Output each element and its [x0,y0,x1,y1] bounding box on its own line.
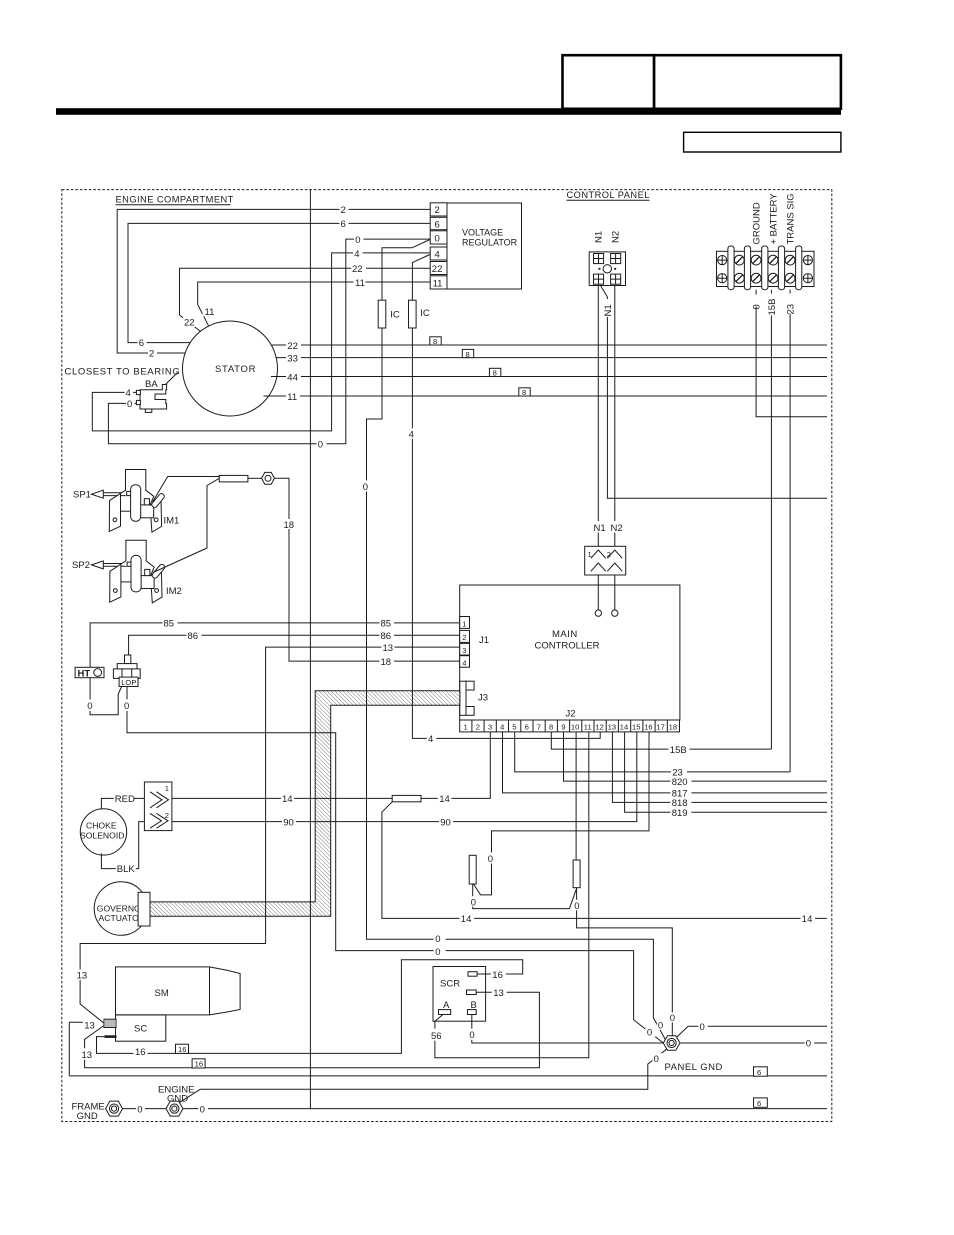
crossed square BR [611,274,621,284]
crossed square TR [611,254,621,264]
svg-text:44: 44 [287,372,298,383]
J1 pin box 4 [460,656,470,668]
svg-text:0: 0 [435,234,440,245]
wire N1 down to breaker [597,286,599,547]
svg-text:13: 13 [493,988,504,999]
wire IM1 to suppressor [153,477,220,503]
wire 23 from TRANS SIG terminal down to J2-5 [789,290,791,772]
wire panel ground to right edge (horizontal) [680,1042,827,1044]
wire 4 from IC2 to J2-12 [412,328,600,738]
svg-text:85: 85 [381,619,392,630]
svg-text:SCR: SCR [440,979,460,990]
wire 818 : J2-13 to right edge [612,732,827,803]
stator output wire 33 [276,357,828,359]
svg-text:STATOR: STATOR [215,364,256,375]
VR pin box 11 [430,276,447,289]
svg-text:16: 16 [644,723,652,732]
svg-text:0: 0 [670,1013,675,1024]
svg-text:CHOKE: CHOKE [86,821,117,831]
svg-text:MAIN: MAIN [552,629,578,640]
terminal block bar 4 [778,246,784,290]
svg-text:6: 6 [525,723,529,732]
ignition hex stud [262,472,275,484]
svg-text:14: 14 [282,794,293,805]
wire 14 branch to right edge [382,802,827,919]
svg-text:13: 13 [383,643,394,654]
braided strap connector at SC [104,1019,116,1027]
breaker pole 2 chevrons [607,550,622,571]
wire N1 branch to right edge [601,286,828,499]
boxed label 16 on SC-SCR16 wire [176,1044,189,1053]
svg-text:0: 0 [200,1105,205,1116]
header small box (empty) [684,132,841,152]
svg-text:ENGINE COMPARTMENT: ENGINE COMPARTMENT [116,195,234,205]
svg-text:18: 18 [669,723,677,732]
VR pin box 0 [430,231,447,244]
wire panel ground to engine ground [180,1049,667,1102]
starter motor nose cone [210,967,241,1015]
svg-text:90: 90 [283,817,294,828]
screw terminal c2 bottom (GROUND) [751,273,761,283]
svg-text:6: 6 [757,1068,761,1077]
svg-text:0: 0 [363,482,368,493]
svg-text:N2: N2 [611,523,623,534]
svg-text:22: 22 [184,317,195,328]
wire 4 : VR pin4 to BA pin4 [92,253,430,431]
wire 22 : VR pin22 to stator top [180,268,431,331]
svg-text:11: 11 [433,279,443,290]
VR pin box 4 [430,247,447,260]
VR pin box 6 [430,217,447,229]
svg-text:+ BATTERY: + BATTERY [769,193,780,245]
screw terminal c4 bottom (TRANS SIG) [785,273,795,283]
svg-text:11: 11 [287,392,297,403]
wire 13 : J1-3 down-left toward starter contactor [80,647,460,1023]
governor actuator terminal box [138,892,150,926]
wire frame gnd to engine gnd [123,1108,167,1110]
wire R1 bottom to R2 bottom [473,884,577,909]
label N2 above breaker [610,521,624,533]
svg-text:18: 18 [284,520,295,531]
J1 pin box 2 [460,630,470,642]
wire 0 from GROUND terminal to right edge [756,290,827,417]
boxed label 6 on lower ground wire [754,1098,768,1107]
wire 15B : J2-8 to battery terminal riser [551,732,771,749]
svg-text:0: 0 [124,701,129,712]
screw terminal c2 top [751,255,761,265]
wire N2 down to breaker [614,286,616,547]
divider line over harness band [309,902,311,916]
outer dashed enclosure border [62,190,832,1122]
connector P-N1N2 body [589,252,625,286]
pointer line to BA [164,373,178,387]
boxed label 6 on frame circuit wire [754,1067,768,1076]
wire IC2 branch to VR pin4 [412,255,430,301]
svg-text:0: 0 [318,440,323,451]
starter motor SM body [116,967,210,1015]
svg-text:7: 7 [537,723,541,732]
screw terminal c1 bottom [734,273,744,283]
J1 pin box 3 [460,643,470,655]
SCR pin 16 [468,972,477,977]
boxed label 16 on 13-SCR wire [192,1059,205,1068]
svg-text:12: 12 [595,723,603,732]
svg-text:33: 33 [287,353,298,364]
boxed terminal label 8 on wire 22 [430,337,441,345]
wire 0 : SCR B to panel ground [472,1015,664,1044]
svg-text:4: 4 [354,249,359,260]
stator ST1 circle [183,321,278,416]
svg-text:0: 0 [647,1027,652,1038]
svg-text:0: 0 [469,1030,474,1041]
svg-text:14: 14 [802,914,813,925]
controller input terminal circle 2 [612,610,618,616]
svg-text:SM: SM [155,988,169,999]
header box right (empty) [654,55,841,109]
svg-text:CONTROL PANEL: CONTROL PANEL [567,190,650,200]
svg-text:3: 3 [462,646,466,655]
low oil pressure switch LOP [113,655,140,687]
header thick rule [56,108,841,115]
svg-text:0: 0 [700,1022,705,1033]
wire 11 : VR pin11 to stator top [198,282,431,326]
svg-text:SC: SC [134,1024,147,1035]
svg-text:16: 16 [492,970,503,981]
SCR pin A [439,1010,451,1015]
svg-text:4: 4 [126,388,131,399]
crossed square BL [594,274,604,284]
svg-text:SOLENOID: SOLENOID [80,831,124,841]
frame ground stud hexagon [106,1101,123,1116]
svg-text:0: 0 [574,901,579,912]
terminal block bar 1 [728,246,734,290]
svg-text:N1: N1 [603,304,614,316]
J1 pin box 1 [460,617,470,629]
svg-text:14: 14 [461,914,472,925]
svg-text:4: 4 [462,658,466,667]
screw terminal c4 top [785,255,795,265]
svg-text:J2: J2 [566,709,576,720]
wire 13 branch to SCR line [85,1026,104,1068]
svg-text:0: 0 [127,399,132,410]
svg-text:2: 2 [476,723,480,732]
mounting screw bottom-left (cross) [718,274,727,283]
ignition suppressor resistor [219,475,248,482]
svg-text:86: 86 [188,631,199,642]
wire 15B from +BATTERY terminal down to J2-8 [770,290,772,749]
svg-text:TRANS SIG: TRANS SIG [786,193,797,244]
mounting screw top-left (cross) [718,256,727,265]
svg-text:1: 1 [464,723,468,732]
terminal block bar 5 [796,246,802,290]
frame circuit wire with boxed 6 [69,1075,827,1077]
svg-text:8: 8 [522,388,526,397]
svg-text:15B: 15B [670,745,687,756]
svg-text:0: 0 [654,1054,659,1065]
svg-text:N1: N1 [594,231,605,243]
svg-text:22: 22 [432,264,443,275]
svg-text:0: 0 [435,934,440,945]
svg-text:11: 11 [584,723,592,732]
boxed terminal label 8 on wire 33 [462,349,473,357]
governor actuator M2 [94,882,148,936]
boxed terminal label 8 on wire 11 [519,388,530,396]
svg-text:CONTROLLER: CONTROLLER [535,641,600,652]
svg-text:22: 22 [352,264,363,275]
wire 90 : choke BLK junction to J2-15 [172,732,637,822]
svg-text:11: 11 [355,278,365,289]
wire 820 : J2-9 to right edge [564,732,828,781]
wire 86 : LOP to J1-2 [129,635,460,663]
svg-text:86: 86 [381,631,392,642]
svg-text:0: 0 [471,897,476,908]
starter contactor SC body [116,1015,166,1041]
breaker pole 1 chevrons [591,550,606,571]
spark plug arrow SP2 [72,560,127,571]
wire 0 from IC1 to panel ground [367,328,666,1040]
svg-text:IC: IC [390,310,400,321]
svg-text:11: 11 [205,307,215,318]
svg-text:6: 6 [435,219,440,230]
svg-text:14: 14 [439,794,450,805]
svg-text:15B: 15B [767,299,778,316]
svg-text:1: 1 [165,784,169,793]
svg-text:10: 10 [571,723,579,732]
SCR pin 13 [467,990,477,995]
main controller U1 body [460,585,680,720]
svg-text:SP1: SP1 [73,490,91,501]
svg-text:4: 4 [500,723,504,732]
svg-text:6: 6 [757,1099,761,1108]
svg-text:13: 13 [84,1020,95,1031]
wire 56 : SCR A to J2-11 [435,732,589,1058]
wire IM2 to suppressor [153,478,219,572]
svg-text:22: 22 [287,341,298,352]
wire 23 : J2-5 to trans sig riser [515,732,790,772]
title CONTROL PANEL [567,190,650,200]
svg-text:N1: N1 [594,523,606,534]
wire LOP 0 to panel ground [127,687,663,1044]
svg-text:16: 16 [178,1045,186,1054]
svg-text:9: 9 [561,723,565,732]
svg-text:2: 2 [607,550,611,559]
center circle [603,265,611,273]
svg-text:2: 2 [165,811,169,820]
resistor R1 [469,855,476,884]
svg-text:1: 1 [588,550,592,559]
thick stub under SC [105,1035,117,1038]
svg-text:0: 0 [658,1021,663,1032]
wire J2-16 to R1 [474,732,650,895]
svg-text:2: 2 [149,349,154,360]
stator output wire 44 [271,376,827,378]
controller input terminal circle 1 [595,610,601,616]
svg-text:REGULATOR: REGULATOR [462,238,518,248]
svg-text:6: 6 [341,219,346,230]
svg-text:820: 820 [672,777,688,788]
svg-text:0: 0 [435,947,440,958]
svg-text:819: 819 [672,808,688,819]
svg-text:8: 8 [493,369,497,378]
svg-text:IM1: IM1 [164,516,180,527]
wire 18 : ignition hex stud to J1-4 [274,478,460,661]
svg-text:J3: J3 [478,693,488,704]
SCR pin B [467,1010,476,1015]
svg-text:0: 0 [752,304,763,309]
wire 14 : choke connector to J2-3 via resistor [172,732,490,799]
svg-text:0: 0 [137,1105,142,1116]
svg-text:BLK: BLK [117,864,136,875]
svg-text:6: 6 [139,338,144,349]
svg-text:5: 5 [512,723,516,732]
svg-text:16: 16 [135,1047,146,1058]
svg-text:4: 4 [428,734,433,745]
hatched harness band (J3 to governor actuator) [150,691,460,917]
wire BLK choke joins 90 [101,822,144,869]
VR pin box 2 [430,203,447,216]
terminal block bar 3 [762,246,768,290]
svg-text:CLOSEST TO BEARING: CLOSEST TO BEARING [65,367,181,378]
svg-text:IC: IC [420,308,430,319]
svg-text:0: 0 [806,1039,811,1050]
svg-text:BA: BA [145,379,158,390]
svg-text:2: 2 [435,205,440,216]
svg-text:4: 4 [409,430,414,441]
svg-text:J1: J1 [479,635,489,646]
svg-text:A: A [443,1000,450,1011]
screw terminal c1 top [734,255,744,265]
screw terminal c3 top [768,255,778,265]
svg-text:18: 18 [381,657,392,668]
wire 85 : HTO to J1-1 [90,623,460,667]
wire 817 : J2-4 to right edge [503,732,828,793]
svg-text:GROUND: GROUND [752,202,763,244]
wire panel ground upper-right branch [677,1026,828,1037]
svg-text:3: 3 [488,723,492,732]
wire 2 : VR pin2 to stator [117,209,430,353]
svg-text:90: 90 [440,817,451,828]
voltage regulator U-VR body [447,203,522,289]
wire 16 : SC to SCR pin 16 [97,960,523,1054]
svg-text:23: 23 [786,304,797,315]
stator output wire 22 [272,344,827,346]
stator output wire 11 [264,395,828,397]
svg-text:16: 16 [195,1060,203,1069]
spark plug arrow SP1 [73,490,127,501]
svg-text:2: 2 [341,205,346,216]
boxed terminal label 8 on wire 44 [489,368,500,376]
high temp oil switch HTO [75,667,104,679]
svg-text:HT: HT [78,668,91,679]
wire RED choke to connector [101,798,144,809]
svg-text:14: 14 [620,723,628,732]
header box left (empty) [563,55,655,109]
svg-text:13: 13 [82,1050,93,1061]
svg-text:GND: GND [167,1094,188,1105]
terminal block body [717,251,815,286]
svg-text:13: 13 [608,723,616,732]
title ENGINE COMPARTMENT [116,195,234,205]
wire suppressor to hex stud [248,477,262,479]
svg-text:17: 17 [656,723,664,732]
svg-text:N2: N2 [611,231,622,243]
svg-text:RED: RED [115,794,135,805]
screw terminal c3 bottom (+BATTERY) [768,273,778,283]
svg-text:IM2: IM2 [166,586,182,597]
wire 6 : VR pin6 to stator [128,223,430,342]
wire HTO 0 to LOP bottom [90,678,121,715]
side dots [598,268,600,270]
svg-text:GND: GND [77,1111,98,1122]
wire 819 : J2-14 to right edge [625,732,827,812]
choke solenoid M1 [80,809,126,855]
SCR body [433,967,486,1022]
wire R2 bottom to panel ground [577,888,673,1037]
svg-text:15: 15 [632,723,640,732]
wire engine gnd to right edge [183,1108,827,1110]
svg-text:SP2: SP2 [72,560,90,571]
choke connector P2 [144,782,172,831]
crossed square TL [594,254,604,264]
wire 0 : VR pin0 to BA pin0 [108,239,430,444]
engine ground stud hexagon [166,1101,183,1116]
svg-text:8: 8 [549,723,553,732]
resistor R2 [573,860,580,888]
compartment divider line [309,190,311,1110]
svg-text:13: 13 [77,971,88,982]
wire IC1 branch to VR pin0 [382,240,430,301]
capacitor IC2 [409,300,417,328]
mounting screw bottom-right (cross) [803,274,812,283]
label N1 above breaker [593,521,606,533]
ignition module IM1 [109,470,165,533]
mounting screw top-right (cross) [803,256,812,265]
wire stub to frame line [69,1022,83,1076]
svg-text:0: 0 [355,235,360,246]
ignition module IM2 [110,540,166,603]
svg-text:8: 8 [433,337,437,346]
svg-text:VOLTAGE: VOLTAGE [462,228,503,238]
J3 connector plug [460,681,474,715]
svg-text:B: B [471,1000,477,1011]
terminal block bar 2 [744,246,750,290]
svg-text:1: 1 [462,619,466,628]
panel ground stud hexagon [663,1036,680,1050]
capacitor IC1 [378,300,386,328]
choke resistor R3 [392,795,421,801]
breaker output wires into controller [597,575,599,610]
wire 13-SCR : SC branch to SCR pin 13 [85,992,540,1067]
svg-text:0: 0 [87,701,92,712]
bearing assembly BA connector [136,385,166,413]
svg-text:85: 85 [164,619,175,630]
svg-text:0: 0 [488,854,493,865]
svg-text:8: 8 [466,350,470,359]
svg-text:4: 4 [435,250,440,261]
svg-text:56: 56 [431,1031,442,1042]
VR pin box 22 [430,262,447,275]
svg-text:LOP: LOP [121,678,136,687]
wire J2-10 to R2 top [575,732,577,860]
svg-text:2: 2 [462,633,466,642]
svg-text:PANEL GND: PANEL GND [665,1062,723,1073]
